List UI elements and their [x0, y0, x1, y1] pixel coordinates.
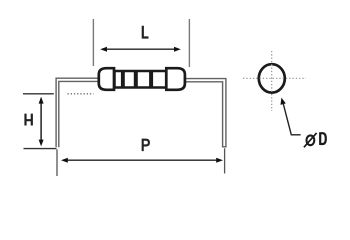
dimension L arrow: [100, 47, 181, 52]
dimension P arrow: [61, 158, 223, 163]
resistor band 3: [149, 70, 153, 89]
resistor end cap right: [166, 68, 185, 90]
resistor band 2: [134, 70, 138, 89]
dimension L extension line right: [188, 19, 190, 67]
dotted centerline under body: [68, 93, 94, 95]
dimension H extension line top: [23, 93, 54, 95]
leader line for ØD: [281, 98, 301, 135]
lead right: [185, 79, 226, 147]
label P: [143, 139, 149, 152]
lead left: [56, 78, 98, 147]
label H: [26, 114, 32, 126]
dimension H extension line bottom: [24, 148, 57, 150]
resistor body: middle section: [115, 71, 167, 88]
resistor end cap left: [99, 68, 114, 90]
cross-section circle: [259, 64, 285, 92]
label L: [143, 26, 149, 38]
dimension P extension line right: [224, 148, 226, 173]
dimension P extension line left: [56, 149, 58, 176]
resistor band 1: [121, 70, 125, 89]
dimension L extension line left: [92, 19, 94, 66]
circle centerline vertical: [271, 51, 273, 111]
circle centerline horizontal: [243, 77, 306, 79]
dimension H arrow: [39, 97, 44, 147]
label ØD: [304, 133, 317, 147]
